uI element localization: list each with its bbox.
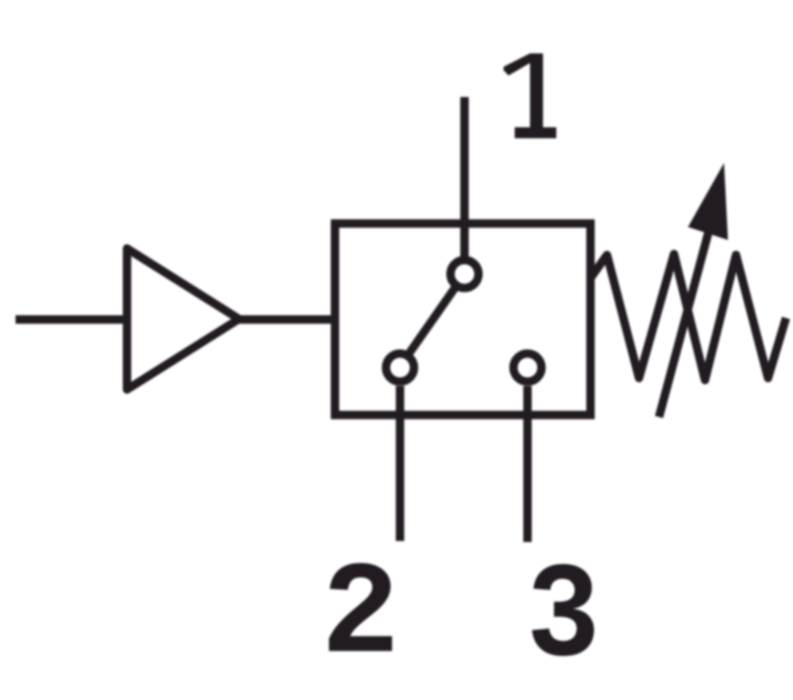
switch contact circle bottom left	[386, 354, 414, 382]
variable resistor zigzag	[591, 254, 787, 380]
switch box outline	[335, 224, 591, 416]
variable resistor arrow shaft	[659, 219, 712, 417]
switch contact circle bottom right	[514, 354, 542, 382]
wire input left	[16, 315, 132, 323]
variable resistor arrow head	[688, 163, 728, 240]
label 1	[504, 53, 557, 138]
wire pin 3	[523, 386, 531, 542]
amplifier buffer triangle	[127, 249, 239, 390]
switch lever	[408, 287, 456, 355]
wire pin 2	[396, 386, 404, 541]
wire pin 1	[460, 97, 468, 259]
switch common contact circle top	[451, 260, 479, 288]
label 3	[532, 564, 594, 656]
label 2	[329, 563, 392, 651]
wire amplifier output to switch box	[236, 315, 335, 323]
